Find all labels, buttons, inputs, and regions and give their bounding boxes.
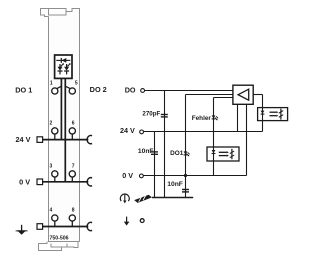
svg-text:4: 4 <box>50 208 53 214</box>
svg-text:750-506: 750-506 <box>49 235 68 241</box>
svg-text:270pF: 270pF <box>142 110 160 117</box>
svg-text:1: 1 <box>50 80 53 86</box>
svg-text:10nF: 10nF <box>138 148 154 155</box>
svg-text:5: 5 <box>75 80 78 86</box>
svg-text:3: 3 <box>50 164 53 170</box>
svg-text:Fehler: Fehler <box>192 115 212 122</box>
svg-text:DO: DO <box>125 85 136 94</box>
svg-text:6: 6 <box>72 121 75 127</box>
svg-text:8: 8 <box>72 208 75 214</box>
svg-text:24 V: 24 V <box>15 135 30 144</box>
svg-text:DO 1: DO 1 <box>15 86 32 95</box>
svg-text:2: 2 <box>50 121 53 127</box>
svg-text:24 V: 24 V <box>120 126 135 135</box>
svg-text:DO1: DO1 <box>170 150 184 157</box>
svg-text:10nF: 10nF <box>167 181 183 188</box>
svg-text:7: 7 <box>72 164 75 170</box>
svg-text:0 V: 0 V <box>19 177 30 186</box>
svg-text:0 V: 0 V <box>122 171 133 180</box>
svg-text:DO 2: DO 2 <box>90 85 107 94</box>
